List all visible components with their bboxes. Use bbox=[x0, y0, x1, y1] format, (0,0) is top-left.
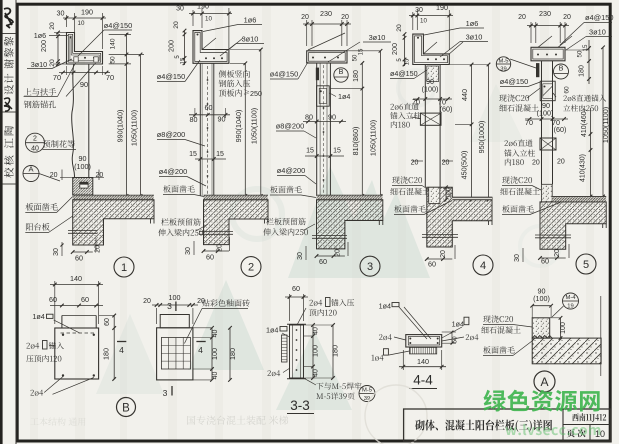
svg-text:19: 19 bbox=[567, 304, 573, 310]
D1 floor finish layer bbox=[73, 194, 154, 196]
svg-text:10: 10 bbox=[205, 16, 212, 23]
svg-text:30: 30 bbox=[415, 7, 423, 14]
4-4 label 2o4 left bbox=[379, 334, 392, 340]
page label bbox=[567, 429, 586, 437]
B section mark 4 right bbox=[196, 341, 205, 343]
D2 slab hatched body bbox=[204, 200, 269, 245]
D1 precast baluster wavy left edge bbox=[72, 64, 75, 178]
svg-text:15: 15 bbox=[189, 151, 197, 158]
D5 beam break line bbox=[535, 234, 571, 236]
D5 dark bar strip on post face bbox=[536, 63, 539, 77]
svg-text:60: 60 bbox=[292, 284, 300, 293]
svg-text:180: 180 bbox=[228, 348, 237, 360]
A dim 100 right bbox=[560, 318, 562, 338]
A label cast C20 bbox=[483, 315, 513, 322]
svg-text:(100): (100) bbox=[533, 294, 550, 303]
title block page cell divider bbox=[589, 425, 591, 442]
D1 cap small dims 140/50 connectors bbox=[109, 34, 131, 36]
svg-text:60: 60 bbox=[319, 257, 327, 266]
D4 rail label 2o6 bbox=[390, 103, 418, 110]
A curb square bbox=[532, 318, 550, 338]
svg-text:M-5: M-5 bbox=[499, 59, 509, 65]
A slab hatched bbox=[532, 338, 601, 364]
D5 flat cap outline bbox=[531, 47, 565, 61]
D1 pedestal curb bbox=[73, 178, 93, 196]
D3 beam break line bbox=[312, 235, 347, 237]
svg-text:1050(1100): 1050(1100) bbox=[130, 110, 139, 146]
svg-text:70: 70 bbox=[106, 73, 114, 82]
svg-text:10: 10 bbox=[78, 20, 85, 27]
D1 cap inner face line bbox=[68, 34, 100, 62]
svg-text:(60): (60) bbox=[440, 105, 453, 114]
svg-text:60: 60 bbox=[452, 336, 459, 344]
svg-text:60: 60 bbox=[206, 253, 214, 262]
D1 cap rebar line with dots bbox=[70, 36, 99, 61]
svg-text:230: 230 bbox=[320, 9, 332, 18]
D5 slab finish lines bbox=[552, 196, 606, 198]
D5 bottom dims 30/60/20 bbox=[522, 248, 524, 262]
D3 dims 15/15 at base bbox=[305, 155, 344, 157]
svg-text:90: 90 bbox=[80, 80, 88, 89]
svg-text:40: 40 bbox=[212, 330, 219, 338]
svg-text:200: 200 bbox=[39, 40, 48, 52]
A label slab roughen bbox=[483, 346, 514, 353]
svg-text:20: 20 bbox=[335, 249, 342, 257]
label cast C20 for D4 bbox=[392, 176, 422, 183]
svg-text:B: B bbox=[339, 67, 344, 76]
detail 5 number circle bbox=[576, 254, 596, 274]
svg-text:180: 180 bbox=[579, 65, 586, 77]
svg-text:ø8@200: ø8@200 bbox=[276, 122, 304, 131]
B right side dim 180 bbox=[229, 328, 231, 380]
D1 beam break line bbox=[68, 230, 98, 232]
svg-text:3ø10: 3ø10 bbox=[369, 33, 386, 42]
pale watermark pattern bbox=[96, 70, 560, 410]
D5 curb and slab hatched bbox=[540, 184, 606, 249]
D5 vertical dim 410(460) bbox=[590, 108, 592, 197]
svg-text:ø4@150: ø4@150 bbox=[104, 21, 132, 30]
svg-text:20: 20 bbox=[396, 24, 403, 32]
D2 masonry panel bbox=[199, 63, 201, 196]
D3 dark bar strip on panel face bbox=[316, 68, 319, 81]
3-3 hardware circle M-5/39 bbox=[359, 386, 375, 402]
D1 top dimension line 30/190 bbox=[66, 15, 68, 27]
B left rect side dims 60/180 bbox=[113, 316, 115, 380]
D4 dims 20/20 at base bbox=[412, 160, 423, 162]
3-3 tile strip left bbox=[282, 335, 288, 362]
svg-text:15: 15 bbox=[405, 58, 411, 65]
D4 cap outline bbox=[413, 34, 450, 64]
D2 side note text bbox=[219, 70, 250, 77]
svg-text:3-3: 3-3 bbox=[290, 398, 310, 413]
D4 post infill dotted top bbox=[427, 66, 439, 82]
3-3 right dim 180 bbox=[332, 325, 334, 378]
title block box bbox=[404, 409, 611, 441]
svg-text:3ø10: 3ø10 bbox=[31, 60, 47, 69]
svg-text:1ø6: 1ø6 bbox=[34, 31, 46, 40]
svg-text:20: 20 bbox=[301, 14, 309, 21]
D1 elevation marker A circle bbox=[23, 166, 39, 182]
D5 label 2o8 anchored bbox=[563, 95, 606, 102]
D3 cap rebar dots bbox=[312, 57, 314, 59]
svg-text:30: 30 bbox=[514, 254, 521, 262]
D3 anchor block under cap bbox=[317, 86, 330, 106]
D5 rail element bbox=[540, 138, 556, 150]
D3 cap perspective lines bbox=[308, 33, 345, 50]
title block right cell divider bbox=[563, 424, 610, 426]
svg-text:20: 20 bbox=[563, 14, 571, 21]
D2 panel center rebar dashed bbox=[207, 66, 209, 194]
D2 vertical dim 1050(1100) bbox=[260, 50, 262, 197]
D5 top dims 20/230/20 bbox=[530, 22, 532, 43]
svg-text:1: 1 bbox=[121, 262, 127, 274]
atlas number text bbox=[572, 413, 606, 422]
page left edge bbox=[0, 0, 3, 444]
svg-text:30: 30 bbox=[176, 6, 184, 13]
svg-text:40: 40 bbox=[212, 372, 219, 380]
A slab right extension line bbox=[600, 296, 602, 376]
svg-text:410(430): 410(430) bbox=[580, 154, 587, 182]
D3 dim 80/90 bbox=[303, 121, 346, 123]
D2 cap inner face bbox=[195, 32, 227, 61]
svg-text:90: 90 bbox=[328, 113, 336, 122]
svg-text:60: 60 bbox=[49, 295, 57, 304]
svg-text:15: 15 bbox=[333, 148, 341, 155]
svg-text:1050(1100): 1050(1100) bbox=[369, 120, 378, 156]
D5 post base C20 infill bbox=[541, 184, 552, 202]
D5 right vertical dims 15/50/180/60 bbox=[588, 40, 590, 84]
svg-text:30: 30 bbox=[53, 248, 60, 256]
label cast C20 for D5 bbox=[502, 176, 532, 183]
svg-text:190: 190 bbox=[81, 8, 93, 17]
D4 beam break line bbox=[422, 234, 458, 236]
svg-text:140: 140 bbox=[110, 38, 117, 49]
detail B name circle bbox=[117, 398, 136, 417]
D5 post top anchor block bbox=[540, 81, 555, 101]
D5 label cast C20 top bbox=[499, 94, 529, 101]
D1 balcony slab hatched body bbox=[73, 200, 154, 245]
svg-text:20: 20 bbox=[96, 172, 104, 179]
D4 post bbox=[424, 65, 426, 188]
label slab roughen for D5 bbox=[502, 205, 533, 212]
svg-text:20: 20 bbox=[442, 160, 450, 167]
D4 cap rebar dots bbox=[427, 58, 429, 60]
label slab roughen for D2 bbox=[163, 185, 194, 192]
detail A name circle bbox=[534, 371, 555, 392]
svg-text:4: 4 bbox=[480, 260, 486, 272]
D1 pedestal dim 20 right bbox=[93, 177, 104, 179]
svg-text:40: 40 bbox=[313, 327, 320, 335]
D4 vertical dim 950(1000) bbox=[488, 65, 490, 200]
svg-text:450(500): 450(500) bbox=[460, 151, 469, 180]
D3 flat cap outline bbox=[307, 51, 347, 63]
svg-text:15: 15 bbox=[216, 151, 224, 158]
B section mark 3 bottom bbox=[171, 386, 173, 396]
D2 cap outline bbox=[193, 31, 229, 64]
detail 1 number circle bbox=[114, 257, 134, 277]
svg-text:B: B bbox=[559, 64, 564, 73]
B left rect section bbox=[61, 316, 63, 329]
svg-text:15: 15 bbox=[181, 57, 187, 64]
B left rect dims 60/60 bbox=[50, 305, 103, 307]
svg-text:ø8@200: ø8@200 bbox=[157, 130, 185, 139]
svg-text:30: 30 bbox=[57, 9, 65, 18]
svg-text:1ø4: 1ø4 bbox=[452, 320, 464, 329]
3-3 center dots bbox=[296, 329, 298, 331]
svg-text:30: 30 bbox=[185, 247, 192, 255]
svg-text:ø4@150: ø4@150 bbox=[270, 70, 298, 79]
D1 baluster right edge bbox=[88, 64, 90, 178]
title text bbox=[415, 420, 552, 432]
svg-text:3: 3 bbox=[367, 261, 373, 273]
svg-text:1050(1100): 1050(1100) bbox=[601, 107, 610, 143]
title block divider vertical bbox=[562, 409, 564, 441]
sidebar divider 3 bbox=[2, 183, 16, 185]
4-4 inner rect bbox=[408, 337, 439, 346]
svg-text:20: 20 bbox=[557, 159, 565, 166]
svg-text:90: 90 bbox=[218, 115, 226, 124]
D1 pedestal dim 20 left bbox=[60, 177, 73, 179]
4-4 label 2o4 right bbox=[466, 334, 479, 340]
svg-text:200: 200 bbox=[390, 43, 399, 55]
D3 vertical dims 180/810(860) bbox=[361, 63, 363, 196]
svg-text:M-5: M-5 bbox=[362, 388, 372, 394]
A hardware circle M-4/19 bbox=[563, 293, 579, 309]
svg-text:20: 20 bbox=[532, 160, 540, 167]
D2 left dims 20/200/5/15 bbox=[184, 31, 186, 65]
svg-text:250: 250 bbox=[250, 89, 262, 98]
svg-text:140: 140 bbox=[417, 357, 429, 366]
D5 cap inner face bbox=[533, 49, 563, 59]
D4 slab finish lines bbox=[452, 197, 492, 200]
svg-text:20: 20 bbox=[518, 14, 526, 21]
B right rect tile plan with top step bbox=[160, 315, 189, 328]
svg-text:A: A bbox=[28, 165, 33, 174]
3-3 body double wall bbox=[290, 325, 304, 378]
B right rect dim 20/100/20 bbox=[156, 308, 158, 324]
D1 slab right end drip bbox=[150, 219, 152, 224]
svg-text:60: 60 bbox=[104, 318, 111, 326]
svg-text:230: 230 bbox=[539, 9, 551, 18]
3-3 right dims 40/100/40 bbox=[312, 325, 314, 378]
D1 dims 70/90/70 under cap bbox=[66, 66, 68, 75]
svg-text:3: 3 bbox=[167, 301, 172, 311]
D2 cap perspective lines bbox=[202, 38, 216, 50]
svg-text:5: 5 bbox=[583, 259, 589, 271]
D1 bottom dims 30/60/20 bbox=[61, 242, 63, 256]
svg-text:1ø4: 1ø4 bbox=[338, 92, 350, 101]
D5 hardware circle M-5/39 bbox=[496, 57, 510, 71]
D4 post base C20 infill bbox=[429, 187, 440, 203]
svg-text:80: 80 bbox=[190, 115, 198, 124]
D5 section circle B bbox=[554, 64, 569, 79]
D2 dims 15/15 at base bbox=[195, 158, 226, 160]
svg-text:1ø6: 1ø6 bbox=[466, 19, 479, 28]
svg-text:440: 440 bbox=[460, 89, 469, 101]
svg-text:60: 60 bbox=[75, 254, 83, 263]
svg-text:4: 4 bbox=[119, 345, 124, 355]
D3 section circle B bbox=[334, 68, 348, 82]
D3 top dims 20/230/20 bbox=[306, 20, 308, 46]
svg-text:60: 60 bbox=[205, 103, 213, 112]
svg-text:20: 20 bbox=[173, 21, 180, 29]
svg-text:190: 190 bbox=[197, 2, 209, 11]
B label 2o4 bottom bbox=[30, 390, 43, 396]
svg-text:40: 40 bbox=[31, 146, 39, 153]
svg-text:3ø10: 3ø10 bbox=[589, 28, 606, 37]
svg-text:20: 20 bbox=[49, 22, 56, 30]
D2 slab drip bbox=[264, 219, 266, 224]
D1 anchor holes in cap underside bbox=[74, 57, 78, 62]
B left rect dim 140 bbox=[54, 281, 56, 324]
svg-text:20: 20 bbox=[49, 59, 56, 67]
D1 vertical dim 1050(1100) bbox=[140, 54, 142, 196]
sidebar signature squiggle middle bbox=[4, 98, 12, 111]
label slab roughen for D3 bbox=[270, 186, 301, 193]
D4 dims 70/70(60) bbox=[413, 98, 452, 100]
detail 3 number circle bbox=[360, 256, 380, 276]
svg-text:1ø4: 1ø4 bbox=[32, 312, 44, 321]
svg-text:200: 200 bbox=[167, 40, 176, 52]
svg-text:ø4@150: ø4@150 bbox=[500, 77, 528, 86]
4-4 tile strip below bbox=[410, 347, 437, 354]
svg-text:15: 15 bbox=[359, 48, 365, 55]
svg-text:(100): (100) bbox=[74, 162, 91, 171]
svg-text:2: 2 bbox=[248, 262, 254, 274]
svg-text:20: 20 bbox=[554, 249, 561, 257]
D5 rail label 2o6 bbox=[504, 139, 532, 146]
faint scan circle bbox=[365, 385, 427, 444]
svg-text:1ø4: 1ø4 bbox=[266, 326, 278, 335]
svg-text:990(1040): 990(1040) bbox=[116, 110, 125, 143]
D1 pedestal inner insert bbox=[80, 182, 88, 188]
svg-text:3ø10: 3ø10 bbox=[242, 35, 259, 44]
svg-text:15: 15 bbox=[306, 148, 314, 155]
D4 vertical dim 440 bbox=[471, 65, 473, 200]
D4 rail element bbox=[420, 113, 441, 125]
svg-text:2: 2 bbox=[33, 136, 37, 143]
sidebar divider 1 bbox=[2, 33, 16, 35]
svg-text:3: 3 bbox=[163, 388, 168, 398]
svg-text:180: 180 bbox=[331, 345, 340, 357]
B right side dims 40/100/40 bbox=[211, 328, 213, 380]
4-4 label 1o4 bottom-left bbox=[372, 355, 384, 361]
svg-text:950(1000): 950(1000) bbox=[477, 121, 486, 154]
svg-text:M-4: M-4 bbox=[566, 295, 577, 301]
label railing reserved bars for D2 bbox=[161, 218, 200, 225]
svg-text:20: 20 bbox=[50, 172, 58, 179]
svg-text:20: 20 bbox=[143, 298, 151, 305]
svg-text:ø4@150: ø4@150 bbox=[390, 69, 418, 78]
svg-text:410(460): 410(460) bbox=[581, 109, 588, 137]
sidebar column line bbox=[15, 0, 17, 444]
D2 floor finish layer bbox=[204, 194, 269, 196]
B tile grid bbox=[161, 338, 190, 370]
D2 beam break line bbox=[199, 231, 233, 233]
D4 curb and slab hatched bbox=[427, 187, 492, 247]
svg-text:20: 20 bbox=[411, 160, 419, 167]
svg-text:70: 70 bbox=[53, 73, 61, 82]
svg-text:60: 60 bbox=[541, 257, 549, 266]
4-4 outer rect bbox=[406, 335, 442, 347]
svg-text:ø4@200: ø4@200 bbox=[159, 167, 187, 176]
svg-text:20: 20 bbox=[341, 14, 349, 21]
D1 label slab roughen left bbox=[26, 203, 58, 211]
D5 slab drip bbox=[602, 224, 604, 228]
svg-text:30: 30 bbox=[297, 252, 304, 260]
D3 slab drip bbox=[378, 221, 380, 226]
svg-text:(60): (60) bbox=[554, 125, 567, 134]
B section mark 3 top bbox=[175, 302, 177, 312]
svg-text:20: 20 bbox=[217, 244, 224, 252]
label railing reserved bars for D3 bbox=[266, 218, 305, 225]
svg-text:20: 20 bbox=[440, 250, 447, 258]
svg-text:4-4: 4-4 bbox=[413, 373, 433, 388]
svg-text:A: A bbox=[540, 375, 548, 389]
D3 masonry panel bbox=[316, 63, 318, 196]
label slab roughen for D4 bbox=[394, 205, 425, 212]
svg-text:1ø4: 1ø4 bbox=[379, 302, 391, 311]
D4 cap inner face bbox=[415, 36, 448, 63]
green watermark url bbox=[505, 424, 600, 435]
svg-text:15: 15 bbox=[582, 44, 589, 51]
D4 left dims 20/200/5/15 bbox=[404, 34, 406, 66]
D5 cap rebar dots bbox=[537, 54, 539, 56]
B section mark 4 left bbox=[117, 341, 126, 343]
4-4 corner dots bbox=[409, 338, 411, 340]
svg-text:60: 60 bbox=[564, 86, 571, 94]
svg-text:80: 80 bbox=[305, 113, 313, 122]
detail 4 number circle bbox=[473, 255, 493, 275]
svg-text:190: 190 bbox=[436, 3, 448, 12]
svg-text:50: 50 bbox=[353, 54, 359, 61]
3-3 top dim 60 bbox=[289, 294, 291, 321]
D4 cap perspective lines bbox=[423, 42, 437, 54]
svg-text:810(860): 810(860) bbox=[351, 127, 360, 156]
svg-text:140: 140 bbox=[70, 274, 82, 283]
svg-text:180: 180 bbox=[102, 348, 111, 360]
D4 dim 100 at slab bbox=[445, 187, 447, 200]
D4 slab drip bbox=[488, 221, 490, 225]
svg-text:100: 100 bbox=[311, 345, 320, 357]
D5 dims 70/70(60) bbox=[525, 118, 568, 120]
sidebar divider 2 bbox=[2, 111, 16, 113]
svg-text:4: 4 bbox=[198, 345, 203, 355]
svg-text:(100): (100) bbox=[422, 85, 439, 94]
D1 cap L-shape outline bbox=[67, 33, 103, 65]
B left rect inner dashed line bbox=[61, 332, 96, 334]
D3 bottom dims 30/60/20 bbox=[305, 246, 307, 260]
svg-text:100: 100 bbox=[210, 348, 219, 360]
B label glazed tile bbox=[202, 299, 250, 306]
D3 cap inner face bbox=[309, 53, 346, 62]
sidebar text: designer bbox=[4, 37, 14, 95]
3-3 label 2o4 top bbox=[309, 300, 322, 306]
3-3 weld note bbox=[316, 382, 361, 389]
svg-text:39: 39 bbox=[500, 67, 506, 73]
D3 panel center dashed rebar bbox=[323, 65, 325, 194]
svg-text:ø4@200: ø4@200 bbox=[277, 166, 305, 175]
D1 vertical dim 990(1040) bbox=[126, 33, 128, 196]
svg-text:60: 60 bbox=[428, 260, 436, 269]
svg-text:(100): (100) bbox=[537, 109, 554, 118]
B label 2o4 anchored bbox=[26, 343, 39, 349]
svg-text:20: 20 bbox=[95, 245, 102, 253]
4-4 dim 60 right bbox=[451, 332, 453, 343]
D1 label anchor-hole with handrail bbox=[24, 88, 56, 96]
D2 cap rebar dots bbox=[205, 57, 207, 59]
svg-text:70: 70 bbox=[525, 118, 533, 127]
